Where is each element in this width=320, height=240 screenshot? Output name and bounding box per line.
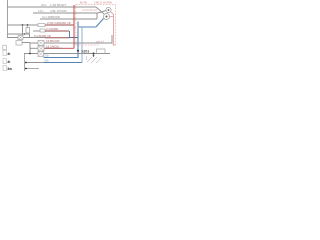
blue diagonal to low horn: [96, 19, 104, 28]
vertical bus x30: [29, 43, 31, 54]
ground G2 bracket: [3, 59, 7, 64]
blue riser from row 11: [81, 27, 83, 63]
wire row 6 gray part: [7, 37, 45, 39]
svg-text:wht 14: wht 14: [96, 40, 104, 44]
horn H1 center dot: [108, 9, 110, 11]
wire row3 riser at x97: [96, 14, 98, 20]
svg-text:31b: 31b: [44, 53, 49, 57]
svg-text:4 BL WT/RD: 4 BL WT/RD: [50, 9, 68, 13]
svg-text:30A: 30A: [41, 3, 46, 7]
wire diag row2 to high horn: [98, 11, 106, 14]
horn assembly dashed box bottom left: [76, 44, 99, 46]
red wire from high horn down: [111, 12, 114, 45]
svg-text:4r: 4r: [7, 52, 11, 56]
svg-text:15A: 15A: [38, 9, 43, 13]
connector X4 inline box on row 9: [38, 52, 44, 57]
wire drop from dot A: [22, 25, 24, 38]
connector X2 inline box on row 7: [38, 41, 44, 46]
svg-text:2 GN/RD: 2 GN/RD: [46, 27, 59, 31]
connector X3 cross: [38, 46, 44, 51]
svg-text:5 GN/OR 18: 5 GN/OR 18: [34, 34, 51, 38]
splice arrowhead: [93, 55, 95, 57]
connector C1 left vertical bus: [7, 0, 9, 38]
svg-text:16 BK/OR: 16 BK/OR: [46, 39, 60, 43]
wire row 8 red part into riser: [62, 47, 74, 49]
wire row 8 gray part: [30, 47, 44, 49]
connector X1 cross: [18, 36, 23, 40]
wire diag row1 to low horn: [96, 7, 104, 14]
wire row 4 gray part: [7, 24, 45, 26]
horn H2 circle low: [104, 14, 110, 20]
gray stub x86: [86, 56, 88, 60]
tick on row 11: [25, 62, 27, 63]
red wire vertical: [73, 5, 75, 48]
junction dot on row 9 left: [29, 53, 31, 55]
junction dot splice: [93, 53, 95, 55]
horn assembly dashed box bottom right stub: [113, 44, 116, 46]
wire row 11 gray part: [25, 62, 44, 64]
wire row 3: [40, 18, 97, 20]
connector bracket B1: [3, 45, 7, 50]
svg-text:4r: 4r: [7, 60, 11, 64]
low horn right stub to red riser: [110, 16, 114, 18]
wire row 5 gray stub: [33, 30, 40, 32]
junction dot B on row 4: [27, 24, 29, 26]
wire row 7 vertical up at right: [111, 35, 113, 44]
ground G3 bracket: [3, 66, 7, 71]
wire row 10 blue: [44, 57, 78, 59]
junction tick on y34: [24, 33, 26, 35]
fuse F1 inline box on row 4: [38, 24, 45, 27]
horn H2 center dot: [106, 16, 108, 18]
svg-text:1 A8 BK/WT: 1 A8 BK/WT: [50, 3, 67, 7]
wire row 12 stub: [25, 68, 39, 70]
tick on row 12: [25, 68, 27, 69]
wire row 9: [24, 53, 110, 55]
svg-text:HI/LO HORN: HI/LO HORN: [95, 0, 113, 4]
horn H1 circle high: [106, 7, 111, 12]
connector wire y34: [7, 34, 30, 38]
fuse F2 inline box on row 5: [40, 29, 45, 32]
ground G1 bracket: [3, 51, 7, 56]
blue riser from row 10: [77, 22, 79, 59]
wire row 7: [30, 42, 112, 44]
ground bus vertical x24: [24, 54, 26, 72]
blue top horizontal: [78, 26, 96, 28]
svg-text:3 H 18BK/RD: 3 H 18BK/RD: [42, 15, 61, 19]
wire row 4 maroon part: [45, 24, 74, 26]
svg-text:31b: 31b: [44, 58, 49, 62]
svg-text:3w: 3w: [7, 67, 12, 71]
horn assembly dashed box left: [75, 5, 77, 46]
wire row 6 maroon part: [45, 37, 70, 39]
twisted pair scribble: [87, 57, 101, 63]
connector X4 cross: [38, 52, 44, 57]
horn assembly dashed box right: [115, 5, 117, 46]
connector X2 cross: [38, 41, 44, 46]
splice leader elbow: [97, 49, 106, 53]
wire row 8 maroon: [44, 47, 62, 49]
component box C100 label: [16, 41, 22, 46]
background: [0, 0, 120, 71]
wire row 2: [33, 12, 98, 14]
svg-text:B+RL: B+RL: [80, 0, 88, 4]
svg-text:16 24/OO: 16 24/OO: [46, 44, 60, 48]
wire row 5 maroon: [45, 30, 69, 32]
wire row 11 blue part: [44, 62, 82, 64]
junction dot on blue riser: [77, 50, 79, 52]
wire row 5 navy corner down: [70, 31, 79, 38]
splice drop wire with arrow: [93, 54, 95, 56]
wire stub dot B to K1: [27, 25, 29, 28]
svg-text:2 DK GRN/RD 18: 2 DK GRN/RD 18: [47, 21, 71, 25]
junction dot A on row 4: [22, 24, 24, 26]
component K1 box under dot B: [26, 28, 30, 34]
connector X3 inline box on row 8: [38, 46, 44, 51]
wire from C100 to bus: [22, 42, 30, 44]
svg-text:HI NOTE HO: HI NOTE HO: [82, 8, 97, 12]
horn assembly dashed box top: [76, 4, 116, 6]
connector X1 inline box on row 6: [18, 36, 23, 40]
dashed divider stub inside box: [75, 27, 79, 29]
wire row 1: [7, 6, 96, 8]
